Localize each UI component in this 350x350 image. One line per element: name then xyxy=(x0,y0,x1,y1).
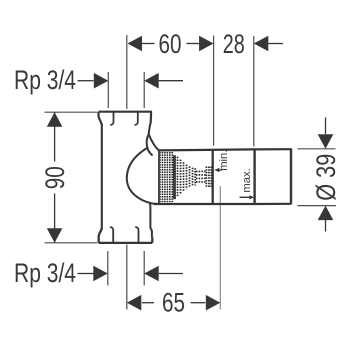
extension line Rp34 top left xyxy=(107,72,109,108)
extension line center axis top xyxy=(126,35,128,109)
valve body top fitting xyxy=(99,112,152,125)
extension line Rp34 top right xyxy=(143,72,145,108)
spindle head xyxy=(205,167,207,188)
dimension 28 arrow tail xyxy=(268,43,283,45)
dimension 65 arrow left xyxy=(127,295,142,311)
min line xyxy=(212,150,214,204)
extension line center axis bottom xyxy=(126,245,128,310)
dimension Rp34 top line xyxy=(78,80,94,82)
dimension dia39 arrow top xyxy=(318,134,334,149)
barrel left border xyxy=(158,150,160,203)
dimension 60 arrow left xyxy=(128,36,143,52)
dimension 65 line xyxy=(142,302,154,304)
dimension Rp34 bottom tail xyxy=(159,273,183,275)
thread mark bottom left xyxy=(110,227,113,242)
dimension Rp34 bottom arrow left xyxy=(93,266,108,282)
min arrow xyxy=(219,169,222,171)
dimension dia39 line bottom xyxy=(325,220,327,231)
flap left curve xyxy=(147,134,153,155)
thread mark bottom right xyxy=(135,227,138,242)
max line xyxy=(253,149,255,204)
dimension Rp34 top arrow left xyxy=(94,73,109,89)
svg-text:Rp 3/4: Rp 3/4 xyxy=(14,258,76,288)
spindle base plate xyxy=(173,155,176,199)
flap right curve xyxy=(149,134,160,151)
dimension dia39 line top xyxy=(325,118,327,135)
spindle cone dotted ribs xyxy=(177,157,179,197)
extension line dia39 bottom xyxy=(298,205,337,207)
thread mark top right xyxy=(135,113,138,125)
extension line max top xyxy=(253,36,255,146)
extension line dia39 top xyxy=(298,148,336,150)
svg-text:65: 65 xyxy=(162,287,185,317)
extension line 65 right xyxy=(219,186,221,310)
max arrow xyxy=(240,196,251,198)
svg-text:max.: max. xyxy=(241,168,253,192)
dimension Rp34 top tail xyxy=(159,80,183,82)
dimension 90 line xyxy=(54,112,56,161)
svg-text:Rp 3/4: Rp 3/4 xyxy=(14,65,76,95)
tube left wall xyxy=(101,124,103,230)
barrel top edge xyxy=(159,149,291,150)
tube right wall upper xyxy=(149,123,151,135)
barrel bottom edge xyxy=(154,203,292,205)
block right edge xyxy=(290,148,292,204)
svg-text:min.: min. xyxy=(218,150,230,171)
bottom fitting xyxy=(99,229,153,243)
dimension Rp34 bottom arrow right xyxy=(144,266,159,282)
extension line 90 top xyxy=(45,111,98,113)
spindle stipple column A xyxy=(160,152,173,202)
extension line min top xyxy=(213,36,215,146)
svg-text:Ø 39: Ø 39 xyxy=(311,154,341,201)
trumpet curve xyxy=(127,148,159,204)
dimension 90 arrow top xyxy=(47,112,63,127)
spindle stem dotted rows xyxy=(196,170,206,172)
dimension Rp34 top arrow right xyxy=(144,73,159,89)
dimension Rp34 bottom line xyxy=(78,273,94,275)
extension line Rp34 bottom right xyxy=(143,251,145,286)
svg-text:60: 60 xyxy=(159,29,182,59)
extension line 90 bottom xyxy=(45,242,98,244)
svg-text:28: 28 xyxy=(223,29,245,59)
dimension 28 arrow right xyxy=(254,36,268,52)
extension line Rp34 bottom left xyxy=(107,251,109,286)
svg-text:90: 90 xyxy=(40,166,70,189)
thread mark top left xyxy=(110,113,113,125)
dimension dia39 arrow bottom xyxy=(318,206,334,221)
lower wall below barrel xyxy=(150,203,152,237)
dimension 65 arrow right xyxy=(206,295,221,311)
dimension 90 arrow bottom xyxy=(47,228,63,243)
dimension 60 arrow right xyxy=(199,36,214,52)
dimension 60 line xyxy=(142,43,155,45)
